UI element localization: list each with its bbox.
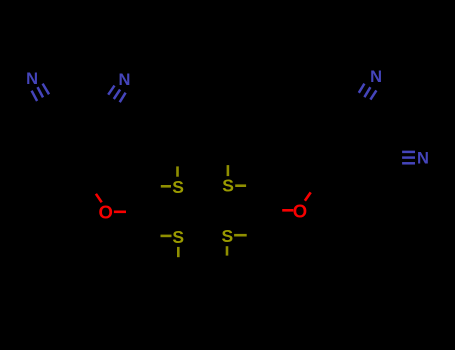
svg-text:S: S	[222, 226, 234, 246]
svg-text:O: O	[99, 201, 113, 222]
svg-text:N: N	[370, 68, 382, 86]
svg-text:S: S	[172, 227, 184, 247]
svg-text:N: N	[26, 70, 38, 88]
svg-text:S: S	[222, 175, 234, 195]
svg-text:N: N	[119, 71, 131, 89]
svg-text:O: O	[293, 201, 307, 222]
svg-text:N: N	[417, 150, 429, 168]
svg-text:S: S	[172, 177, 184, 197]
